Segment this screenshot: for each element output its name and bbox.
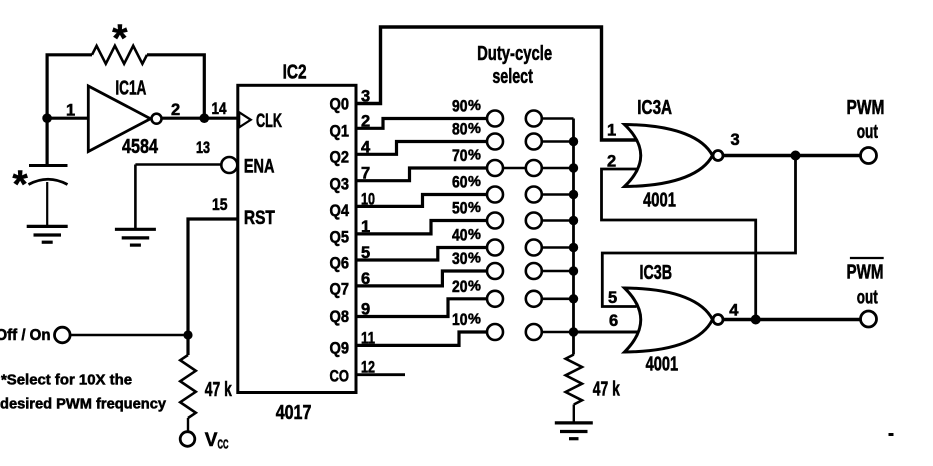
junction bus at 70%: [569, 163, 578, 172]
switch contact 70% left: [487, 160, 503, 176]
wire IC1A feedback loop right: [147, 55, 204, 118]
svg-text:Q3: Q3: [330, 174, 350, 193]
svg-text:90: 90: [452, 98, 468, 116]
wire RST to Off/On node: [188, 219, 238, 335]
svg-text:30: 30: [452, 250, 468, 268]
wire IC3A pin 2 from IC3B output: [602, 169, 756, 320]
svg-text:20: 20: [452, 278, 468, 296]
wire node to resistor: [186, 335, 189, 355]
switch contact 10% left: [487, 324, 503, 340]
junction bus at 10%: [569, 327, 578, 336]
svg-text:3: 3: [731, 131, 740, 149]
switch contact 20% right: [526, 291, 542, 307]
svg-text:CLK: CLK: [256, 111, 282, 132]
label 20%: [452, 278, 481, 296]
svg-text:4584: 4584: [122, 136, 159, 158]
wire input node to IC1A: [47, 117, 88, 120]
wire pin to 70% contact: [356, 168, 487, 181]
wire 20% contact to bus: [542, 297, 574, 300]
label Vcc: [205, 430, 229, 452]
ENA inversion bubble: [221, 157, 237, 173]
wire Off/On to node: [70, 334, 188, 336]
svg-text:70: 70: [452, 147, 468, 165]
wire 70% jumper (selected): [503, 167, 526, 170]
svg-text:4: 4: [729, 302, 739, 320]
svg-text:%: %: [468, 148, 481, 164]
wire pin to 20% contact: [356, 299, 487, 317]
svg-text:*: *: [13, 164, 29, 207]
svg-text:IC1A: IC1A: [115, 78, 146, 100]
terminal PWM out: [861, 148, 877, 164]
svg-text:6: 6: [609, 312, 618, 330]
label 30%: [452, 250, 481, 268]
wire IC3B output to PWM-bar out: [723, 318, 861, 321]
svg-text:4001: 4001: [646, 354, 679, 376]
switch contact 20% left: [487, 291, 503, 307]
label PWM overline: [850, 257, 884, 259]
svg-text:15: 15: [212, 196, 228, 214]
svg-text:4001: 4001: [643, 189, 676, 211]
svg-text:IC2: IC2: [283, 61, 307, 83]
wire pin12 CO stub: [356, 373, 405, 376]
node IC3A output junction: [791, 151, 801, 161]
svg-text:CO: CO: [330, 367, 350, 386]
wire IC1A output to IC2 CLK: [162, 117, 238, 120]
svg-text:47 k: 47 k: [593, 379, 621, 401]
ground (ENA): [115, 229, 156, 245]
wire resistor to Vcc: [187, 418, 189, 432]
wire 40% contact to bus: [542, 246, 574, 249]
svg-text:%: %: [468, 200, 481, 216]
svg-text:2: 2: [171, 101, 180, 119]
svg-text:*Select for 10X the: *Select for 10X the: [1, 371, 132, 388]
wire 30% contact to bus: [542, 270, 574, 273]
wire IC1A feedback loop left/top: [47, 55, 92, 118]
wire Q0/pin3 to IC3A pin 1: [356, 27, 637, 140]
label 80%: [452, 121, 481, 139]
wire resistor to ground: [573, 405, 575, 423]
svg-text:Duty-cycle: Duty-cycle: [477, 43, 552, 65]
svg-text:80: 80: [452, 121, 468, 139]
wire ENA to ground: [135, 165, 221, 230]
svg-text:%: %: [468, 227, 481, 243]
node IC3B output junction: [751, 315, 761, 325]
switch contact 30% left: [487, 263, 503, 279]
svg-text:select: select: [492, 66, 533, 88]
wire duty-select bus: [572, 119, 575, 355]
svg-text:13: 13: [196, 139, 210, 157]
svg-text:%: %: [468, 278, 481, 294]
junction bus at 20%: [569, 294, 578, 303]
speck (scan artifact): [889, 433, 894, 436]
ground (capacitor): [27, 226, 68, 242]
svg-text:10: 10: [452, 311, 468, 329]
svg-text:out: out: [857, 122, 879, 143]
switch contact 80% right: [526, 134, 542, 150]
svg-text:Off / On: Off / On: [0, 327, 51, 344]
label 90%: [452, 98, 481, 116]
svg-text:47 k: 47 k: [205, 379, 233, 401]
wire node to capacitor: [45, 118, 48, 165]
svg-text:*: *: [112, 18, 128, 61]
wire pin to 30% contact: [356, 271, 487, 286]
junction bus at 30%: [569, 266, 578, 275]
wire pin to 50% contact: [356, 221, 487, 234]
label 50%: [452, 200, 481, 218]
switch contact 60% left: [487, 187, 503, 203]
svg-text:%: %: [468, 312, 481, 328]
switch contact 50% left: [487, 213, 503, 229]
svg-text:Q1: Q1: [330, 121, 350, 140]
junction bus at 60%: [569, 190, 578, 199]
label 10%: [452, 311, 481, 329]
wire pin to 40% contact: [356, 248, 487, 261]
svg-text:desired PWM frequency: desired PWM frequency: [0, 396, 167, 413]
svg-text:Q4: Q4: [330, 201, 350, 220]
svg-text:%: %: [468, 98, 481, 114]
svg-text:CC: CC: [218, 437, 229, 452]
node IC1A input junction: [42, 113, 52, 123]
svg-text:Q5: Q5: [330, 227, 350, 246]
svg-text:IC3B: IC3B: [640, 262, 673, 284]
junction bus at 40%: [569, 243, 578, 252]
svg-text:Q2: Q2: [330, 147, 350, 166]
svg-text:50: 50: [452, 200, 468, 218]
wire 70% contact to bus: [542, 167, 574, 170]
svg-text:5: 5: [608, 289, 617, 307]
ground (pull-down): [555, 423, 593, 439]
nor gate IC3A: [625, 125, 724, 187]
svg-text:1: 1: [66, 101, 75, 119]
svg-text:14: 14: [212, 100, 228, 118]
switch contact 10% right: [526, 324, 542, 340]
svg-text:ENA: ENA: [244, 157, 275, 178]
switch contact 40% left: [487, 240, 503, 256]
switch contact 80% left: [487, 134, 503, 150]
svg-text:RST: RST: [244, 208, 275, 229]
svg-text:%: %: [468, 251, 481, 267]
switch contact 90% left: [487, 111, 503, 127]
svg-text:Q9: Q9: [330, 339, 350, 358]
switch contact 90% right: [526, 111, 542, 127]
wire pin to 80% contact: [356, 142, 487, 155]
resistor 47k (pull-up): [180, 355, 196, 418]
svg-text:%: %: [468, 121, 481, 137]
label 40%: [452, 227, 481, 245]
wire 80% contact to bus: [542, 140, 574, 143]
capacitor C* (timing): [29, 166, 68, 185]
svg-text:%: %: [468, 174, 481, 190]
svg-text:V: V: [205, 430, 218, 451]
terminal Off/On: [55, 327, 71, 343]
wire pin to 10% contact: [356, 332, 487, 345]
junction bus at 80%: [569, 137, 578, 146]
wire 90% contact to bus: [542, 117, 574, 120]
switch contact 50% right: [526, 213, 542, 229]
svg-text:Q0: Q0: [330, 95, 350, 114]
switch contact 40% right: [526, 240, 542, 256]
op-amp/inverter IC1A triangle: [88, 86, 161, 152]
wire capacitor to ground: [46, 182, 48, 226]
label 60%: [452, 174, 481, 192]
terminal Vcc: [180, 432, 195, 447]
svg-text:1: 1: [607, 122, 616, 140]
wire IC3A output to PWM out: [723, 154, 861, 157]
svg-text:Q7: Q7: [330, 280, 350, 299]
switch contact 30% right: [526, 263, 542, 279]
wire 60% contact to bus: [542, 193, 574, 196]
switch contact 70% right: [526, 160, 542, 176]
wire IC3A output to IC3B pin 5: [602, 156, 795, 307]
svg-text:PWM: PWM: [847, 97, 885, 119]
svg-text:IC3A: IC3A: [637, 97, 672, 119]
wire bus to IC3B pin 6: [574, 331, 639, 334]
svg-text:4017: 4017: [276, 402, 312, 424]
IC2 body (4017 counter): [238, 85, 356, 392]
junction bus at 50%: [569, 216, 578, 225]
wire 10% contact to bus: [542, 331, 574, 334]
svg-text:out: out: [857, 288, 878, 309]
svg-text:PWM: PWM: [847, 262, 884, 284]
resistor R* (timing): [92, 46, 147, 64]
svg-text:60: 60: [452, 174, 468, 192]
nor gate IC3B: [625, 288, 724, 352]
svg-text:40: 40: [452, 227, 468, 245]
terminal PWM-bar out: [861, 311, 877, 327]
wire pin to 60% contact: [356, 195, 487, 207]
label 70%: [452, 147, 481, 165]
node IC1A output junction: [200, 113, 210, 123]
switch contact 60% right: [526, 187, 542, 203]
CLK input triangle: [239, 112, 251, 127]
svg-text:Q6: Q6: [330, 253, 350, 272]
svg-text:Q8: Q8: [330, 307, 350, 326]
node RST junction: [183, 330, 192, 339]
wire pin to 90% contact: [356, 119, 487, 129]
resistor 47k (bus pull-down): [566, 355, 582, 405]
wire 50% contact to bus: [542, 219, 574, 222]
